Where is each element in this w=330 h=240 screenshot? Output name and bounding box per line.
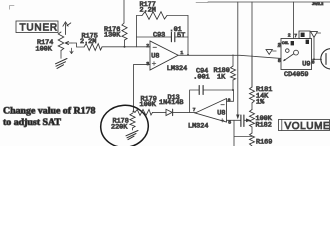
resistor R175	[84, 44, 102, 51]
wire op-amp1 output	[178, 55, 281, 58]
svg-text:LM324: LM324	[188, 122, 208, 130]
svg-text:3: 3	[278, 42, 281, 48]
svg-text:U8: U8	[217, 109, 225, 117]
wire non-inverting input	[134, 65, 151, 112]
wiper arrow of R174	[65, 41, 72, 44]
svg-text:5T: 5T	[177, 32, 185, 40]
wire inverting input to R180/C94 node	[227, 90, 234, 101]
VOLUME label box	[279, 120, 330, 131]
wire inverting input node	[102, 46, 150, 48]
resistor R176	[122, 23, 127, 40]
supply triangle above U9 right	[311, 32, 318, 38]
wire R176 bottom stub	[124, 40, 126, 47]
resistor R177	[142, 12, 167, 20]
svg-text:100K: 100K	[140, 101, 157, 109]
svg-text:to adjust SAT: to adjust SAT	[3, 117, 61, 128]
capacitor at wiper	[241, 115, 244, 127]
svg-text:2.2M: 2.2M	[80, 38, 96, 46]
svg-text:CD4059: CD4059	[284, 71, 308, 79]
resistor R181	[250, 87, 255, 103]
wire C93 row	[137, 36, 189, 38]
op-amp U8 first section	[150, 41, 178, 70]
op-amp U8 second section (points left)	[195, 99, 226, 123]
wire chain vertical from top bus	[251, 2, 253, 87]
pin bracket left	[278, 46, 282, 48]
capacitor C94	[204, 89, 234, 91]
svg-text:.001: .001	[193, 74, 209, 82]
wire stub down from +input	[234, 120, 252, 146]
resistor R179	[134, 109, 153, 115]
capacitor C93	[171, 32, 174, 41]
svg-text:6: 6	[312, 60, 315, 66]
svg-text:2.2M: 2.2M	[140, 7, 156, 15]
ground marker at U9 input	[266, 50, 272, 55]
cw mark	[70, 48, 73, 53]
svg-text:C93: C93	[153, 32, 165, 40]
svg-text:TUNER: TUNER	[20, 23, 58, 34]
ground under R174	[60, 51, 62, 59]
highlight ellipse around R178	[99, 104, 149, 149]
svg-text:1%: 1%	[256, 99, 265, 107]
svg-text:220K: 220K	[111, 124, 128, 132]
wire drop from bus to U9 top	[293, 2, 295, 39]
node arrow (top terminal of R174)	[63, 22, 71, 35]
ground under R178	[132, 128, 134, 130]
wire long vertical from top bus	[237, 2, 239, 115]
svg-text:R182: R182	[256, 121, 272, 129]
svg-text:5: 5	[278, 58, 281, 64]
switch lever	[284, 54, 294, 61]
svg-text:JW2.2: JW2.2	[312, 1, 324, 6]
resistor R180	[232, 55, 234, 66]
svg-text:VOLUME: VOLUME	[285, 121, 330, 132]
svg-text:2: 2	[288, 32, 291, 38]
resistor R178 (circled)	[130, 113, 135, 128]
node R178/R179 junction	[133, 111, 135, 113]
svg-text:OSL: OSL	[282, 41, 289, 45]
wire feedback top	[137, 15, 189, 17]
corner bracket artifact	[10, 6, 15, 10]
svg-text:U8: U8	[151, 53, 159, 61]
svg-text:1N414B: 1N414B	[159, 99, 183, 107]
svg-text:U9: U9	[302, 61, 310, 69]
component box above U9	[299, 31, 310, 39]
feedback loop left vertical	[136, 16, 138, 47]
wire wiper to R175	[72, 43, 84, 47]
feedback loop right vertical	[187, 16, 189, 55]
IC U9 CD4059 box	[281, 39, 312, 70]
wire U9 right side	[313, 37, 315, 59]
svg-text:6: 6	[228, 98, 231, 104]
svg-text:7: 7	[294, 33, 297, 39]
wiper arrow of R182	[246, 118, 251, 122]
connector circle B	[321, 49, 330, 69]
wire vertical from top edge to R176	[123, 0, 125, 23]
switch contact circle	[294, 50, 299, 55]
node junction	[124, 46, 126, 48]
svg-text:Change value of R178: Change value of R178	[3, 106, 96, 117]
potentiometer R174	[58, 32, 64, 51]
svg-text:100K: 100K	[36, 45, 53, 53]
potentiometer R182	[250, 110, 255, 128]
wire non-inverting input row	[227, 119, 241, 121]
svg-text:1K: 1K	[217, 74, 226, 82]
svg-text:2: 2	[146, 43, 149, 49]
pad pin 2	[306, 40, 309, 44]
wire chain between R181 top	[251, 55, 253, 87]
svg-text:LM324: LM324	[167, 65, 187, 73]
TUNER label box	[16, 21, 58, 33]
wire top horizontal bus	[208, 1, 330, 3]
resistor R169	[250, 133, 255, 146]
svg-text:R169: R169	[256, 139, 272, 146]
svg-text:7: 7	[193, 107, 196, 113]
diode D13	[153, 111, 167, 113]
svg-text:130K: 130K	[104, 31, 121, 39]
pad pin 1	[291, 41, 294, 45]
